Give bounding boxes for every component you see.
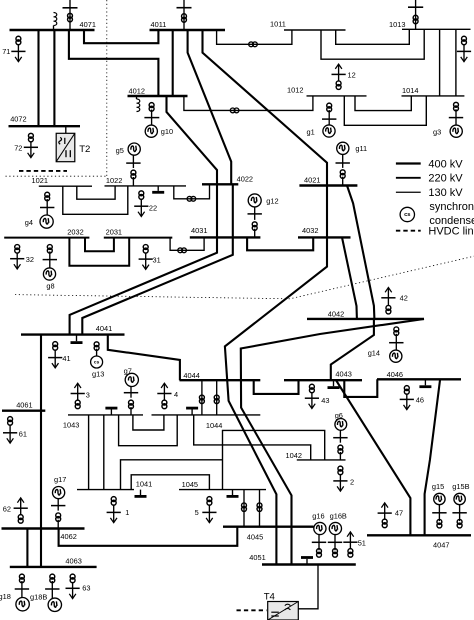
wire 1021-1022 circuit 2 (inner) [77,186,115,199]
transformer ext-4011 [182,14,187,22]
load 41 [48,350,62,368]
generator g14 [390,350,402,362]
svg-text:47: 47 [395,509,403,518]
svg-text:4063: 4063 [65,556,81,565]
shunt capacitor at 1044 [186,408,198,415]
bus 4051 (400 kV) [262,563,356,565]
external grid link at 4011 [183,0,185,30]
generator g4 lead [46,199,48,215]
generator g6 lead upper [339,430,341,443]
wire 4062-4063 circuit 1 [26,529,28,567]
wire 4021-4032 [326,186,328,238]
load 12 [332,64,346,81]
svg-text:72: 72 [14,144,22,153]
svg-text:4072: 4072 [10,114,26,123]
bus 1041 (130 kV) [77,489,134,491]
generator g16B bar [328,541,342,543]
svg-text:g4: g4 [25,218,33,227]
load 5 transformer [207,497,212,506]
generator g8 lead [49,251,51,268]
svg-text:71: 71 [2,47,10,56]
generator g12 transformer [252,222,257,230]
transformer 1022-4022 wire [174,184,210,199]
svg-text:g5: g5 [116,146,124,155]
transformer 4044-1044 a wire [201,380,203,415]
external equivalent bar at 4011 [177,7,192,9]
wire 1043-1044 circuit 1 [133,415,164,430]
load 61 transformer [8,417,13,426]
wire 4012-4071 [69,30,158,96]
bus 4063 (400 kV) [10,566,97,568]
transformer 4044-1044 b [214,395,219,404]
load 1013 transformer [462,36,467,45]
bus 4032 (400 kV) [298,236,351,238]
load 31 [139,253,153,269]
bus 1045 (130 kV) [179,489,266,491]
generator g7 bar [124,392,138,394]
generator g7 lead lower [130,407,132,415]
svg-text:4062: 4062 [60,532,76,541]
generator g8 transformer [47,245,52,254]
svg-text:g16B: g16B [330,512,347,521]
generator g11 transformer [340,170,345,178]
svg-text:4047: 4047 [433,541,449,550]
load 62 [14,498,28,515]
generator g15B lead [459,505,461,521]
wire 2032-2031 circuit 1 (outer) [69,238,129,266]
legend 220 kV line [396,177,421,179]
svg-text:cs: cs [94,361,100,366]
svg-text:T2: T2 [79,144,90,155]
svg-text:HVDC lin: HVDC lin [428,226,473,238]
bus 4041 (400 kV) [21,333,125,335]
legend HVDC dashes [396,230,421,232]
bus 4047 (400 kV) [367,534,471,536]
bus 2032 (220 kV) [4,237,89,239]
load 2 [333,475,347,492]
generator g5 lead upper [132,155,134,168]
generator g1 lead [328,110,330,125]
svg-text:42: 42 [400,294,408,303]
svg-text:130 kV: 130 kV [428,187,463,199]
load 42 transformer [386,305,391,314]
bus 4042 (400 kV) [307,318,424,320]
bus 4031 (400 kV) [190,236,261,238]
bus 4045 (400 kV) [223,526,314,528]
area boundary dotted horizontal [6,175,107,177]
generator g6 bar [333,437,347,439]
legend 130 kV line [396,191,421,193]
wire 4043-4046 [344,379,377,397]
svg-text:4032: 4032 [302,226,318,235]
load 31 transformer [143,245,148,254]
transformer 2031-4031 [178,248,187,253]
generator g10 bar [144,117,159,119]
generator g5 [128,143,140,155]
bus 4012 (400 kV) [128,95,188,97]
svg-text:1011: 1011 [270,20,286,29]
generator g1 [323,125,335,137]
load 47 [378,503,392,519]
wire 4042-4044 [241,319,424,565]
generator g16 lead [318,535,320,551]
generator g12 lead upper [254,207,256,220]
wire 1012-1014 circuit 1 [355,96,411,111]
svg-text:g13: g13 [92,370,104,379]
generator g17 lead upper [57,498,59,510]
svg-text:1: 1 [125,508,129,517]
svg-text:4071: 4071 [80,20,96,29]
legend synchronous condenser symbol [400,207,414,221]
wire 4011-4022 [188,30,232,184]
transformer 4044-1044 b wire [216,380,218,415]
transformer 2031-4031 wire [170,237,204,250]
svg-text:4043: 4043 [335,369,351,378]
generator g3 lead [455,109,457,125]
sync condenser g13 transformer [94,342,99,351]
external grid link at 4071 (line to top edge) [69,0,71,30]
load 1013 [457,45,471,62]
load 51 [343,532,357,549]
bus 4022 (400 kV) [202,183,238,185]
svg-text:4042: 4042 [328,310,344,319]
sync condenser g13 lead [96,349,98,356]
generator g16B [329,522,341,534]
svg-text:4: 4 [174,390,178,399]
svg-text:g10: g10 [161,127,173,136]
generator g15B bar [452,512,466,514]
generator g6 [335,419,347,431]
load 22 transformer [139,191,144,199]
transformer 4011-1011 [249,42,258,47]
load 1 transformer [111,497,116,506]
svg-text:4041: 4041 [96,324,112,333]
generator g16 [314,522,326,534]
bus 1011 (130 kV) [284,29,346,31]
external grid link at 1013 [415,0,417,29]
generator g15 transformer [437,519,442,528]
generator g11 [337,142,349,154]
generator g5 transformer [131,170,136,178]
transformer ext-1013 [413,15,418,23]
svg-text:2031: 2031 [106,227,122,236]
svg-text:g16: g16 [312,512,324,521]
transformer 4012-1012 [230,108,239,113]
generator g12 lead lower [254,229,256,238]
generator g18B bar [45,588,59,590]
wire 1041-1045 circuit 1 [131,475,209,490]
generator g14 lead [395,334,397,350]
svg-text:1012: 1012 [287,86,303,95]
external equivalent bar at 4071 [63,7,78,9]
load 42 [381,288,395,306]
generator g8 bar [43,259,57,261]
bus 1014 (130 kV) [402,95,465,97]
svg-text:41: 41 [62,354,70,363]
generator g12 bar [248,213,262,215]
svg-text:g11: g11 [355,144,367,153]
svg-text:1013: 1013 [389,20,405,29]
generator g15B [454,493,465,504]
wire 1042-1044 [194,415,311,460]
svg-text:g3: g3 [433,128,441,137]
generator g11 lead upper [342,155,344,168]
transformer 4045-1045 b wire [259,490,261,527]
bus 2031 (220 kV) [104,237,173,239]
generator g1 bar [322,118,336,120]
load 41 transformer [53,342,58,351]
wire 1042-1045 [223,430,325,489]
bus 1013 (130 kV) [402,28,471,30]
wire 4061-4062 [40,411,42,529]
generator g4 [40,215,53,228]
load 32 [10,253,24,269]
wire 4071-4072 circuit 2 [53,30,55,126]
load 46 [400,394,414,410]
load 72 transformer [28,133,33,141]
bus 1012 (130 kV) [307,95,367,97]
shunt capacitor at 4043 [328,380,340,387]
generator g6 lead lower [339,452,341,460]
generator g10 lead [151,110,153,126]
generator g11 lead lower [342,177,344,186]
wire 4045-4062 [59,527,238,546]
load 4 [157,383,171,400]
shunt capacitor at 4051 [301,558,313,565]
wire 4032-4042 [342,237,357,319]
generator g1 transformer [327,103,332,112]
wire 4032-4044 [225,237,327,564]
HVDC converter T2 lead [65,126,67,133]
transformer 4045-1045 a [242,503,247,512]
generator g3 [450,125,462,137]
generator g18 bar [15,588,29,590]
bus 1022 (130 kV) [105,185,187,187]
svg-text:4021: 4021 [304,176,320,185]
svg-text:61: 61 [19,429,27,438]
generator g16B transformer [333,549,338,558]
bus 4072 (400 kV) [9,125,81,127]
generator g5 lead lower [132,177,134,186]
wire 1012-1014 circuit 2 [344,96,426,125]
generator g18 transformer [19,574,24,583]
generator g4 bar [40,207,54,209]
bus 4044 (400 kV) [180,379,261,381]
wire 4071-4011 [84,30,158,43]
generator g7 transformer [129,400,134,409]
wire 4031-4041 circuit 2 [82,237,233,334]
bus 4062 (400 kV) [2,527,85,529]
svg-text:46: 46 [416,395,424,404]
wire 4022-4031 circuit 2 [232,184,234,237]
wire 1041-1043 circuit 1 [88,415,90,490]
HVDC link at T2 (dashed) [19,170,67,172]
wire 1013-1014 circuit 2 [455,29,457,96]
generator g17 [53,487,65,499]
svg-text:4031: 4031 [191,226,207,235]
load 5 [202,505,216,523]
generator g10 [145,125,157,137]
wire 1043-1044 circuit 2 [119,415,178,446]
svg-text:g6: g6 [335,411,343,420]
shunt capacitor at 1041 [135,490,147,497]
transformer 4045-1045 a wire [243,490,245,527]
wire 4046-4047 [425,379,441,535]
load 71 transformer [16,36,21,45]
HVDC converter T4 wire [298,565,318,609]
transformer 4011-1011 wire [217,30,292,44]
svg-text:1021: 1021 [32,176,48,185]
svg-text:220 kV: 220 kV [428,173,463,185]
shunt capacitor at 4041 [71,335,83,343]
generator g10 transformer [149,103,154,112]
shunt reactor at 4012 [137,96,140,112]
wire 4041-4061 [40,335,42,411]
load 46 transformer [404,386,409,395]
load 51 transformer [348,549,353,558]
svg-text:g17: g17 [54,475,66,484]
bus 4043 (400 kV) [284,379,362,381]
generator g18B [48,598,61,611]
load 22 [134,199,148,216]
generator g18B lead [51,581,53,598]
svg-text:4011: 4011 [151,20,167,29]
svg-text:1042: 1042 [286,451,302,460]
generator g15 [434,493,445,504]
wire 1041-1043 circuit 2 [103,415,105,490]
wire 1021-1022 circuit 1 (outer) [63,186,128,214]
bus 1043 (130 kV) [68,414,143,416]
transformer 1022-4022 [187,196,196,201]
svg-text:T4: T4 [264,591,276,602]
svg-text:62: 62 [3,505,11,514]
generator g14 bar [389,342,403,344]
wire 4011-4012 [172,30,174,96]
load 12 transformer [336,81,341,90]
svg-text:4046: 4046 [387,370,403,379]
load 2 transformer [338,466,343,475]
generator g15 bar [432,512,446,514]
svg-text:4051: 4051 [249,553,265,562]
load 32 transformer [15,245,20,254]
shunt capacitor at 1045 [227,490,239,497]
shunt capacitor at 1022 [152,186,164,192]
transformer 4045-1045 b [257,503,262,512]
svg-text:2032: 2032 [67,227,83,236]
bus 1042 (130 kV) [297,459,346,461]
HVDC converter T2 box [56,133,75,161]
generator g16 bar [312,541,326,543]
svg-text:32: 32 [26,255,34,264]
load 63 [66,583,80,599]
generator g17 bar [51,505,65,507]
svg-text:22: 22 [149,203,157,212]
wire 2032-2031 circuit 2 (inner) [85,238,114,252]
generator g12 [248,194,261,207]
generator g7 [125,373,138,386]
wire 4041-4044 [108,335,180,381]
transformer ext-4071 [68,13,73,21]
bus 4061 (400 kV) [2,410,45,412]
transformer 4012-1012 wire [184,96,313,110]
wire 1013-1014 circuit 1 [439,29,441,96]
wire 4062-4063 circuit 2 [40,529,42,567]
svg-text:1022: 1022 [106,176,122,185]
svg-text:g14: g14 [368,349,380,358]
generator g3 bar [449,117,463,119]
svg-text:g8: g8 [46,282,54,291]
bus 4046 (400 kV) [377,378,461,380]
generator g11 bar [336,162,350,164]
generator g18 lead [21,581,23,598]
wire 4031-4041 circuit 1 [70,237,217,334]
load 63 transformer [70,574,75,583]
wire 4021-4042 [347,186,374,319]
svg-text:43: 43 [321,396,329,405]
generator g4 transformer [45,192,50,201]
load 4 transformer [162,400,167,409]
svg-text:4012: 4012 [129,86,145,95]
svg-text:g12: g12 [266,197,278,206]
svg-text:g7: g7 [124,366,132,375]
svg-text:cs: cs [404,212,410,218]
sync condenser g13 [91,356,103,368]
svg-text:4061: 4061 [16,400,32,409]
load 43 [305,393,319,409]
wire 4042-4043 [331,319,374,379]
wire 4043-4047 [336,380,410,535]
generator g16 transformer [317,549,322,558]
generator g6 transformer [338,445,343,454]
svg-text:12: 12 [348,71,356,80]
shunt capacitor at 4046 [419,379,431,386]
transformer 4044-1044 a [199,395,204,404]
load 62 transformer [18,515,23,524]
generator g18 [16,598,29,611]
generator g16B lead [334,535,336,551]
area boundary dotted middle [15,256,474,299]
bus 4071 (400 kV) [10,29,95,31]
legend 400 kV line [396,162,421,164]
load 3 transformer [75,400,80,409]
svg-text:1043: 1043 [63,421,79,430]
svg-text:4045: 4045 [247,533,263,542]
generator g17 transformer [56,513,61,522]
svg-text:400 kV: 400 kV [428,158,463,170]
svg-text:63: 63 [82,583,90,592]
generator g3 transformer [454,102,459,111]
bus 1021 (130 kV) [39,185,92,187]
generator g17 lead lower [57,520,59,529]
generator g14 transformer [394,327,399,336]
generator g5 bar [126,162,140,164]
svg-text:2: 2 [350,477,354,486]
load 72 [24,142,38,158]
load 1 [107,505,121,523]
generator g8 [43,268,55,280]
svg-text:5: 5 [195,508,199,517]
bus 4021 (400 kV) [299,184,357,186]
shunt capacitor at 1043 [105,408,117,415]
external equivalent bar at 1013 [408,6,423,8]
wire 4071-4072 circuit 1 [37,30,39,126]
load 61 [3,425,17,443]
load 43 transformer [309,384,314,392]
wire 4012-4022 [167,96,218,184]
HVDC converter T4 box [268,602,299,620]
svg-text:1045: 1045 [182,480,198,489]
svg-text:3: 3 [86,390,90,399]
